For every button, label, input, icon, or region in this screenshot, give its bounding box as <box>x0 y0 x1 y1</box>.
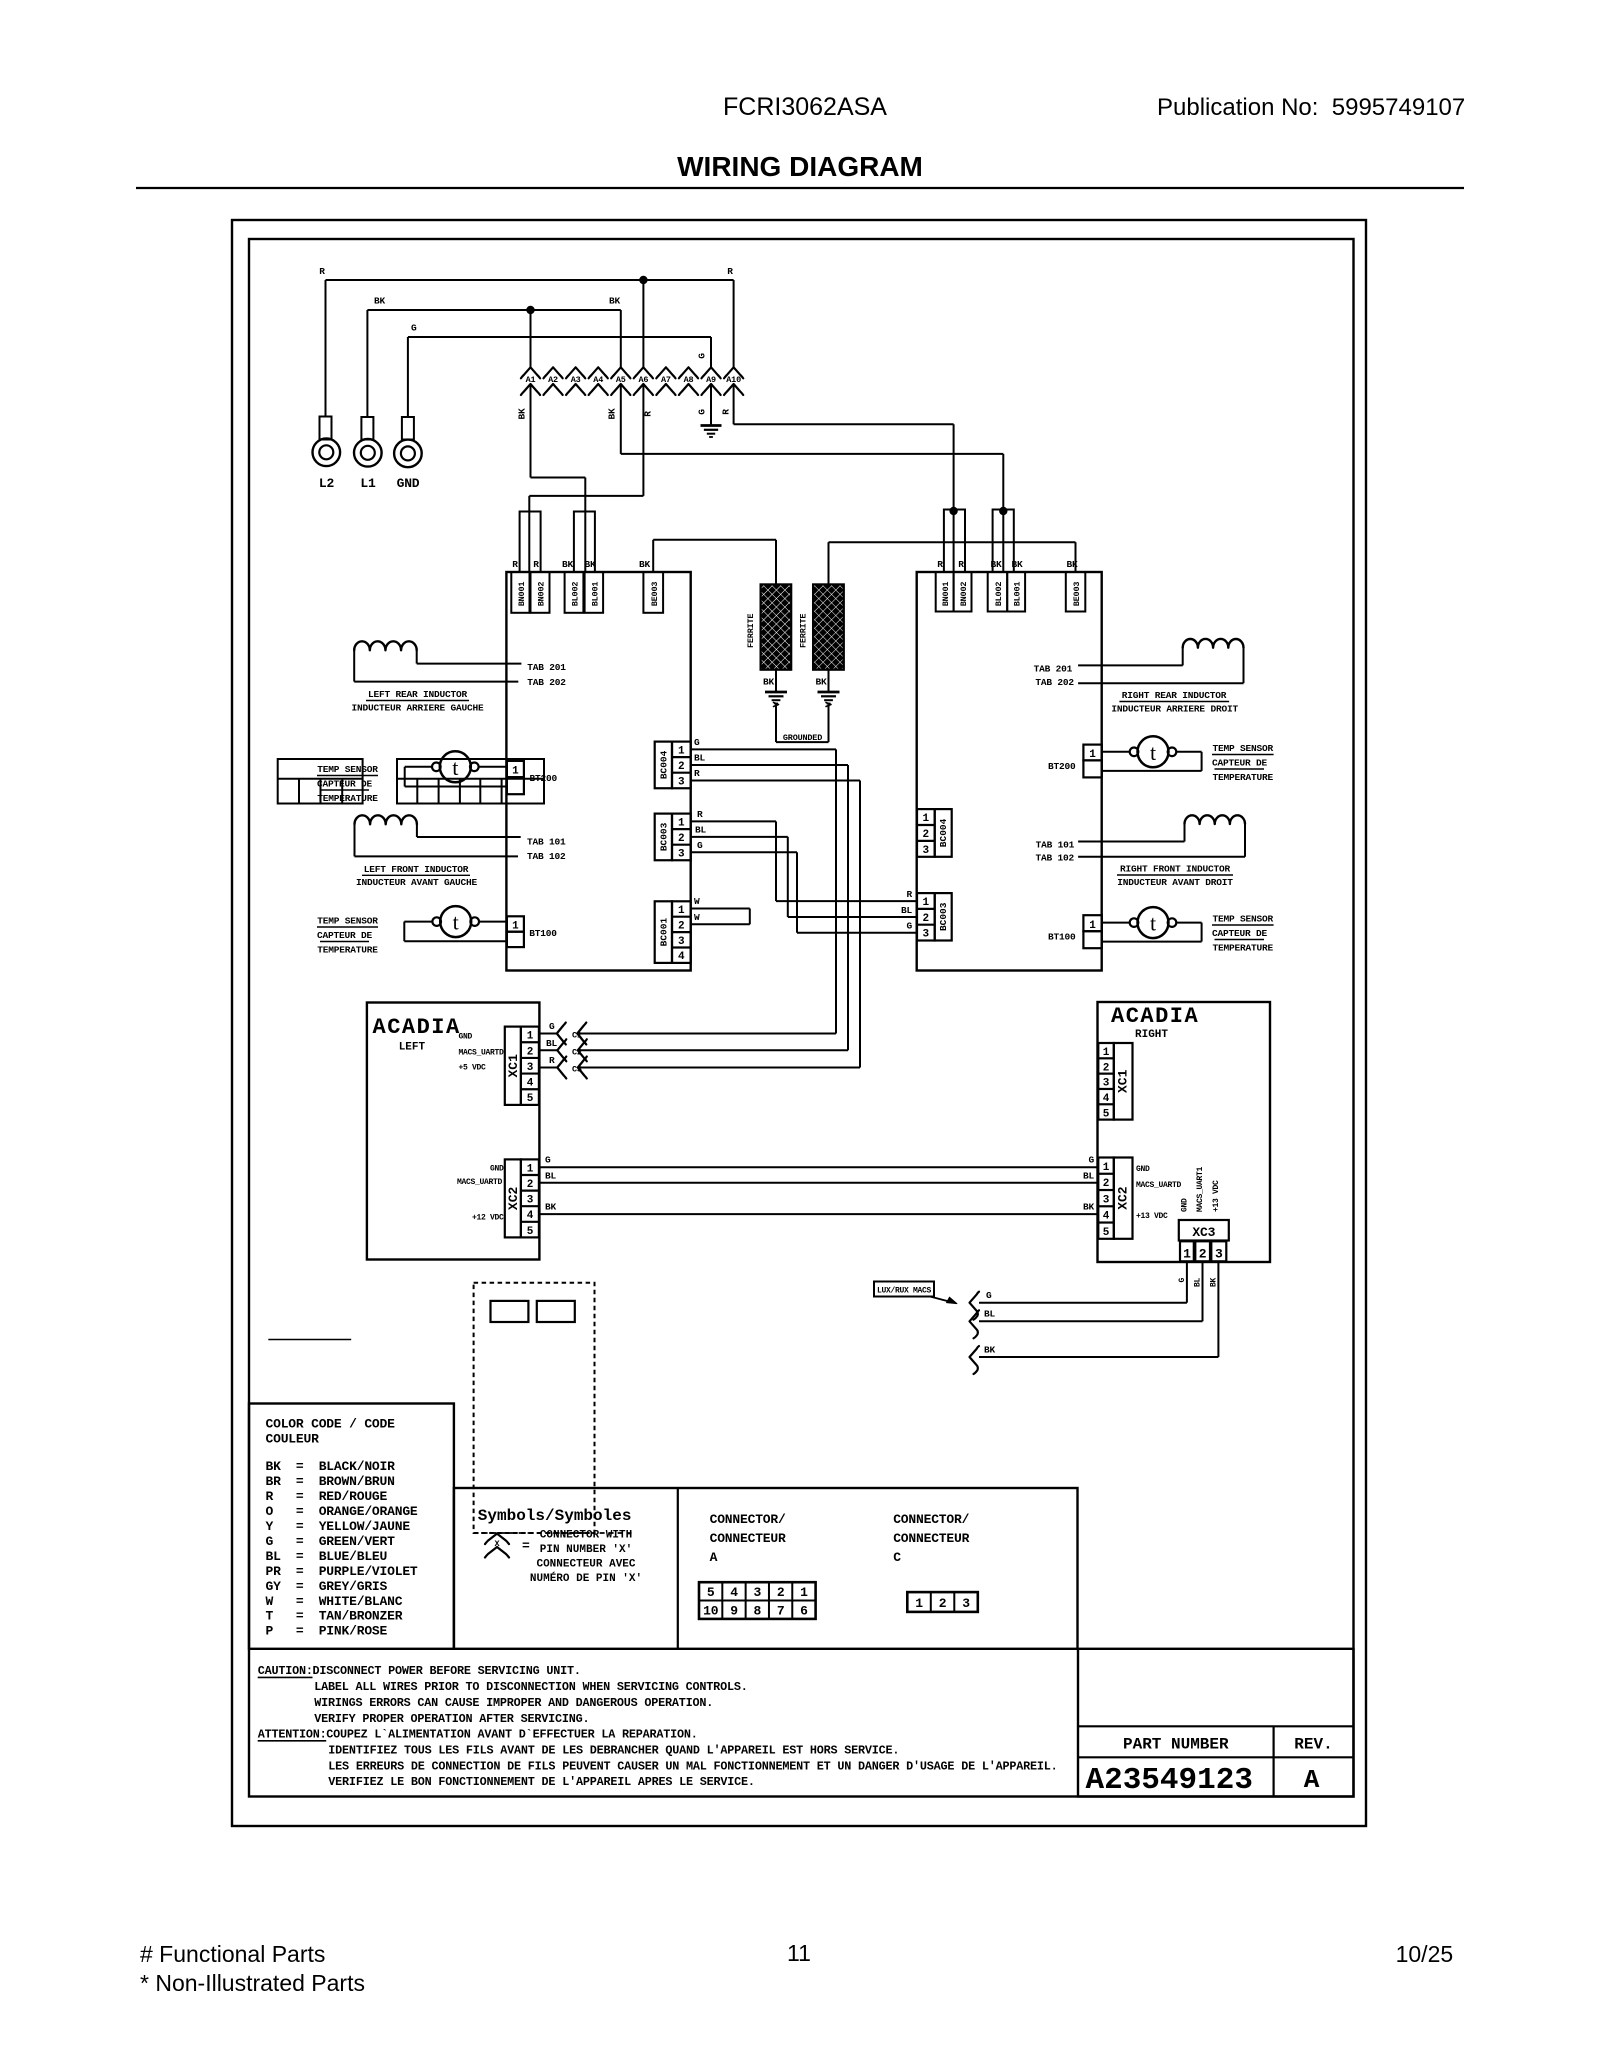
svg-text:11: 11 <box>787 1940 811 1966</box>
svg-text:CAPTEUR DE: CAPTEUR DE <box>317 930 373 941</box>
svg-text:P = PINK/ROSE: P = PINK/ROSE <box>266 1624 388 1639</box>
svg-text:1: 1 <box>1103 1047 1110 1059</box>
wire BK XC3-3 to LUX harness <box>1217 1261 1219 1357</box>
svg-text:BL002: BL002 <box>994 582 1004 607</box>
svg-text:VERIFIEZ LE BON FONCTIONNEMENT: VERIFIEZ LE BON FONCTIONNEMENT DE L'APPA… <box>328 1775 755 1789</box>
wire BK branch down through A1 <box>530 310 532 367</box>
svg-text:* Non-Illustrated Parts: * Non-Illustrated Parts <box>140 1970 365 1996</box>
module ACADIA RIGHT <box>1098 1002 1271 1262</box>
svg-text:BL: BL <box>1083 1170 1095 1181</box>
svg-text:W: W <box>694 912 700 923</box>
svg-text:2: 2 <box>1199 1247 1207 1262</box>
svg-text:LUX/RUX MACS: LUX/RUX MACS <box>877 1287 932 1296</box>
svg-text:CONNECTEUR: CONNECTEUR <box>893 1531 969 1546</box>
svg-text:MACS_UARTD: MACS_UARTD <box>459 1049 505 1058</box>
left board connector housing over BL tabs <box>574 512 595 573</box>
svg-text:C2: C2 <box>572 1048 582 1058</box>
svg-text:CONNECTOR/: CONNECTOR/ <box>710 1512 786 1527</box>
svg-text:TAB 101: TAB 101 <box>527 836 566 847</box>
terminal strip grid A at BT200 <box>278 759 363 804</box>
wire BK from L1 to A5 <box>367 309 620 311</box>
svg-text:R: R <box>643 411 654 417</box>
svg-text:BL: BL <box>901 905 913 916</box>
svg-text:BL001: BL001 <box>590 582 600 607</box>
temp sensor BT100 left <box>440 906 471 937</box>
svg-text:LABEL ALL WIRES PRIOR TO DISCO: LABEL ALL WIRES PRIOR TO DISCONNECTION W… <box>314 1680 747 1694</box>
svg-text:5: 5 <box>527 1093 534 1105</box>
svg-text:TEMP SENSOR: TEMP SENSOR <box>317 764 378 775</box>
svg-text:FERRITE: FERRITE <box>746 614 756 648</box>
svg-text:1: 1 <box>922 897 929 909</box>
svg-text:BL: BL <box>546 1038 558 1049</box>
svg-text:2: 2 <box>678 761 685 773</box>
svg-text:2: 2 <box>922 829 929 841</box>
right board connector housing over BN tabs <box>944 510 965 573</box>
svg-text:2: 2 <box>1103 1178 1110 1190</box>
svg-text:3: 3 <box>922 845 929 857</box>
svg-text:LEFT FRONT INDUCTOR: LEFT FRONT INDUCTOR <box>364 864 469 875</box>
left board tab BL001 <box>585 572 604 613</box>
svg-text:1: 1 <box>1089 920 1096 932</box>
svg-text:4: 4 <box>1103 1211 1110 1223</box>
svg-text:R: R <box>727 266 733 277</box>
svg-text:+13 VDC: +13 VDC <box>1136 1212 1168 1221</box>
svg-text:MACS_UART1: MACS_UART1 <box>1196 1166 1205 1212</box>
connector A7 <box>656 367 675 378</box>
svg-text:TEMPERATURE: TEMPERATURE <box>1213 943 1274 954</box>
svg-text:BK: BK <box>639 559 651 570</box>
connector BC001 left board <box>655 901 672 963</box>
svg-text:ACADIA: ACADIA <box>373 1015 461 1040</box>
wire R branch down through A6 <box>642 280 644 367</box>
svg-text:XC1: XC1 <box>1116 1069 1131 1093</box>
svg-text:A2: A2 <box>548 375 558 385</box>
junction node on right BN housing <box>949 507 957 515</box>
svg-text:INDUCTEUR AVANT DROIT: INDUCTEUR AVANT DROIT <box>1117 877 1233 888</box>
connector BC004 right board <box>935 809 952 857</box>
svg-text:4: 4 <box>527 1210 534 1222</box>
wire R from L2 to A10 <box>326 279 734 281</box>
svg-text:X: X <box>495 1539 501 1549</box>
svg-text:BK: BK <box>1083 1202 1095 1213</box>
svg-text:TEMPERATURE: TEMPERATURE <box>1213 772 1274 783</box>
svg-text:BT200: BT200 <box>1048 761 1076 772</box>
right board tab BE003 <box>1066 572 1086 612</box>
svg-text:BK: BK <box>763 677 775 688</box>
svg-text:COLOR CODE / CODE: COLOR CODE / CODE <box>266 1417 396 1432</box>
svg-text:PIN NUMBER 'X': PIN NUMBER 'X' <box>540 1544 632 1556</box>
svg-text:A6: A6 <box>638 375 648 385</box>
svg-text:G: G <box>1088 1155 1094 1166</box>
svg-text:3: 3 <box>527 1062 534 1074</box>
svg-text:BC001: BC001 <box>659 918 670 947</box>
svg-text:1: 1 <box>678 817 685 829</box>
svg-text:3: 3 <box>678 776 685 788</box>
svg-text:6: 6 <box>800 1604 808 1619</box>
connector A4 <box>589 367 608 378</box>
left board connector housing over BN tabs <box>520 512 541 573</box>
svg-text:NUMÉRO DE PIN 'X': NUMÉRO DE PIN 'X' <box>530 1571 642 1585</box>
svg-text:INDUCTEUR ARRIERE DROIT: INDUCTEUR ARRIERE DROIT <box>1111 704 1238 715</box>
connector XC3 <box>1179 1220 1229 1241</box>
svg-text:R: R <box>721 409 732 415</box>
part number table <box>1078 1649 1354 1797</box>
svg-text:A1: A1 <box>526 375 536 385</box>
terminal L1 ring lug <box>366 310 368 417</box>
svg-text:Publication No: 5995749107: Publication No: 5995749107 <box>1157 94 1465 121</box>
svg-text:R: R <box>533 559 539 570</box>
svg-text:2: 2 <box>678 833 685 845</box>
connector A6 <box>634 367 653 378</box>
svg-text:TAB 102: TAB 102 <box>527 851 566 862</box>
connector C pin grid <box>907 1592 978 1612</box>
svg-text:BK: BK <box>815 677 827 688</box>
svg-text:BL = BLUE/BLEU: BL = BLUE/BLEU <box>266 1549 388 1564</box>
svg-text:Symbols/Symboles: Symbols/Symboles <box>478 1507 632 1525</box>
connector A2 <box>543 367 562 378</box>
terminal L2 ring lug <box>325 280 327 417</box>
svg-text:BK: BK <box>374 296 386 307</box>
svg-text:BE003: BE003 <box>650 582 660 607</box>
svg-text:5: 5 <box>1103 1227 1110 1239</box>
svg-text:CONNECTEUR AVEC: CONNECTEUR AVEC <box>536 1559 635 1571</box>
svg-text:4: 4 <box>527 1078 534 1090</box>
right board tab BN001 <box>936 572 954 612</box>
symbols box <box>454 1488 1078 1649</box>
svg-text:G: G <box>411 323 417 334</box>
svg-text:C3: C3 <box>572 1065 582 1075</box>
connector A9 <box>701 367 720 378</box>
svg-text:1: 1 <box>527 1163 534 1175</box>
svg-text:XC2: XC2 <box>506 1187 521 1211</box>
svg-text:COULEUR: COULEUR <box>266 1432 320 1447</box>
svg-text:A: A <box>1304 1765 1320 1795</box>
terminal GND ring lug <box>407 337 409 417</box>
wire BK down through A5 <box>620 310 622 367</box>
wire G BC004-1 to C1 <box>691 748 836 750</box>
svg-text:G: G <box>697 353 708 359</box>
svg-text:4: 4 <box>730 1585 738 1600</box>
svg-text:BL: BL <box>694 753 706 764</box>
terminal strip grid B at BT200 <box>397 759 544 804</box>
wire BL BC003 pin2 interconnect <box>691 836 788 838</box>
svg-text:BK: BK <box>607 408 618 420</box>
title underline rule <box>136 187 1464 189</box>
svg-text:2: 2 <box>1103 1062 1110 1074</box>
svg-text:BK: BK <box>545 1202 557 1213</box>
wire G XC3-1 to LUX harness <box>1186 1261 1188 1302</box>
left power board <box>506 572 690 971</box>
svg-text:W = WHITE/BLANC: W = WHITE/BLANC <box>266 1594 403 1609</box>
svg-text:MACS_UARTD: MACS_UARTD <box>457 1178 503 1187</box>
svg-text:BL: BL <box>984 1309 996 1320</box>
svg-text:1: 1 <box>800 1585 808 1600</box>
wire R below A10 to right board BN housing <box>733 384 735 424</box>
svg-text:R: R <box>697 809 703 820</box>
svg-text:TAB 101: TAB 101 <box>1036 840 1075 851</box>
svg-text:A4: A4 <box>593 375 603 385</box>
svg-text:BN002: BN002 <box>537 582 547 607</box>
svg-text:BC003: BC003 <box>659 822 670 851</box>
svg-text:R: R <box>958 559 964 570</box>
svg-text:3: 3 <box>1215 1247 1223 1262</box>
wire W jumper BC001 pins 1-2 <box>691 908 750 910</box>
ferrite 2 ground wire <box>828 670 830 691</box>
svg-text:TAB 201: TAB 201 <box>1034 664 1073 675</box>
svg-text:BK = BLACK/NOIR: BK = BLACK/NOIR <box>266 1459 396 1474</box>
svg-text:PR = PURPLE/VIOLET: PR = PURPLE/VIOLET <box>266 1564 418 1579</box>
wire BK from left BE003 to ferrite 1 <box>652 540 654 572</box>
right board tab BL001 <box>1007 572 1025 612</box>
connector block BT200 right <box>1083 745 1101 761</box>
svg-text:WIRING DIAGRAM: WIRING DIAGRAM <box>677 151 923 182</box>
svg-text:G: G <box>545 1155 551 1166</box>
wire BL XC2 bus <box>539 1182 1098 1184</box>
wire R BC004-3 to C3 <box>691 780 860 782</box>
svg-text:+13 VDC: +13 VDC <box>1212 1180 1221 1212</box>
left board tab BL002 <box>565 572 584 613</box>
svg-text:2: 2 <box>939 1596 947 1611</box>
connector BC004 left board <box>655 742 672 789</box>
svg-text:ATTENTION:: ATTENTION: <box>258 1728 327 1742</box>
svg-text:COUPEZ L`ALIMENTATION AVANT D`: COUPEZ L`ALIMENTATION AVANT D`EFFECTUER … <box>326 1728 697 1742</box>
wire R below A6 to left board BN housing <box>642 384 644 496</box>
svg-text:1: 1 <box>915 1596 923 1611</box>
svg-text:A9: A9 <box>706 375 716 385</box>
svg-text:LEFT: LEFT <box>399 1042 426 1054</box>
ferrite bead 2 <box>813 584 844 669</box>
svg-text:C: C <box>893 1550 901 1565</box>
svg-text:BC003: BC003 <box>938 902 949 931</box>
svg-text:2: 2 <box>527 1179 534 1191</box>
svg-text:8: 8 <box>754 1604 762 1619</box>
connector A8 <box>679 367 698 378</box>
ferrite 1 ground wire <box>775 670 777 691</box>
svg-text:FCRI3062ASA: FCRI3062ASA <box>723 93 887 121</box>
junction node BK at A1 <box>526 306 534 314</box>
svg-text:TAB 202: TAB 202 <box>527 677 566 688</box>
connector A5 <box>611 367 630 378</box>
inductor left front coil <box>355 815 417 824</box>
symbols box divider <box>677 1488 679 1649</box>
svg-text:G: G <box>697 409 708 415</box>
svg-text:10/25: 10/25 <box>1396 1941 1454 1967</box>
svg-text:+12 VDC: +12 VDC <box>472 1214 504 1223</box>
svg-text:3: 3 <box>678 848 685 860</box>
svg-text:TEMP SENSOR: TEMP SENSOR <box>1213 743 1274 754</box>
svg-text:A: A <box>710 1550 718 1565</box>
svg-text:# Functional Parts: # Functional Parts <box>140 1941 325 1967</box>
ferrite bead 1 <box>761 584 792 669</box>
right board connector housing over BL tabs <box>993 510 1014 573</box>
svg-text:9: 9 <box>730 1604 738 1619</box>
UI board button 2 <box>537 1301 575 1322</box>
svg-text:2: 2 <box>777 1585 785 1600</box>
svg-text:4: 4 <box>1103 1093 1110 1105</box>
svg-text:WIRINGS ERRORS CAN CAUSE IMPRO: WIRINGS ERRORS CAN CAUSE IMPROPER AND DA… <box>314 1696 713 1710</box>
svg-text:BL: BL <box>545 1170 557 1181</box>
svg-text:MACS_UARTD: MACS_UARTD <box>1136 1181 1182 1190</box>
svg-text:5: 5 <box>707 1585 715 1600</box>
svg-text:TEMP SENSOR: TEMP SENSOR <box>1213 914 1274 925</box>
svg-text:R: R <box>549 1055 555 1066</box>
svg-text:BE003: BE003 <box>1072 582 1082 607</box>
svg-text:3: 3 <box>527 1195 534 1207</box>
svg-text:A3: A3 <box>571 375 581 385</box>
svg-text:3: 3 <box>922 929 929 941</box>
svg-text:A8: A8 <box>684 375 694 385</box>
svg-text:1: 1 <box>922 813 929 825</box>
color code box <box>249 1404 454 1649</box>
svg-text:10: 10 <box>703 1604 719 1619</box>
svg-text:R = RED/ROUGE: R = RED/ROUGE <box>266 1489 388 1504</box>
svg-text:1: 1 <box>678 905 685 917</box>
svg-text:3: 3 <box>754 1585 762 1600</box>
connector block BT100 right <box>1083 915 1101 931</box>
connector XC1 right <box>1114 1043 1133 1120</box>
svg-text:XC1: XC1 <box>506 1054 521 1078</box>
svg-text:BK: BK <box>609 296 621 307</box>
svg-text:GND: GND <box>1181 1198 1190 1212</box>
svg-text:G: G <box>1178 1278 1187 1283</box>
junction node R at A6 <box>639 276 647 284</box>
left board tab BN002 <box>531 572 550 613</box>
svg-text:CONNECTOR/: CONNECTOR/ <box>893 1512 969 1527</box>
svg-text:5: 5 <box>1103 1108 1110 1120</box>
svg-text:O = ORANGE/ORANGE: O = ORANGE/ORANGE <box>266 1504 418 1519</box>
svg-text:BN001: BN001 <box>941 582 951 607</box>
svg-text:REV.: REV. <box>1294 1736 1332 1754</box>
svg-text:3: 3 <box>1103 1078 1110 1090</box>
svg-text:BL001: BL001 <box>1013 582 1023 607</box>
svg-text:TAB 201: TAB 201 <box>527 662 566 673</box>
svg-text:3: 3 <box>678 936 685 948</box>
connector BC003 right board <box>935 893 952 940</box>
connector XC2 left <box>505 1159 521 1237</box>
svg-text:G: G <box>986 1290 992 1301</box>
svg-text:CAPTEUR DE: CAPTEUR DE <box>1212 758 1268 769</box>
svg-text:R: R <box>512 559 518 570</box>
svg-text:L1: L1 <box>360 476 376 491</box>
wire BL BC004-2 to C2 <box>691 764 848 766</box>
svg-text:CAUTION:: CAUTION: <box>258 1664 313 1678</box>
wire G XC1-1 with connector C1 <box>539 1033 557 1035</box>
wire G XC2 bus <box>539 1166 1098 1168</box>
svg-text:Y = YELLOW/JAUNE: Y = YELLOW/JAUNE <box>266 1519 411 1534</box>
svg-text:LES ERREURS DE CONNECTION DE F: LES ERREURS DE CONNECTION DE FILS PEUVEN… <box>328 1759 1057 1773</box>
svg-text:VERIFY PROPER OPERATION AFTER: VERIFY PROPER OPERATION AFTER SERVICING. <box>314 1712 589 1726</box>
svg-text:G: G <box>697 840 703 851</box>
svg-text:CAPTEUR DE: CAPTEUR DE <box>1212 928 1268 939</box>
wire BK below A1 to left board BL housing <box>530 384 532 478</box>
svg-text:BC004: BC004 <box>659 750 670 779</box>
svg-text:1: 1 <box>678 745 685 757</box>
svg-text:5: 5 <box>527 1226 534 1238</box>
user interface board (dashed) <box>474 1283 595 1533</box>
svg-text:INDUCTEUR AVANT GAUCHE: INDUCTEUR AVANT GAUCHE <box>356 877 478 888</box>
UI board button 1 <box>491 1301 529 1322</box>
svg-text:GND: GND <box>1136 1165 1150 1174</box>
wire BL XC3-2 to LUX harness <box>1202 1261 1204 1321</box>
svg-text:BN001: BN001 <box>517 582 527 607</box>
svg-text:T = TAN/BRONZER: T = TAN/BRONZER <box>266 1609 403 1624</box>
svg-text:G: G <box>549 1021 555 1032</box>
svg-text:R: R <box>319 266 325 277</box>
wire BK below A5 to right board BL housing <box>620 384 622 454</box>
svg-text:G: G <box>906 921 912 932</box>
svg-text:BK: BK <box>517 408 528 420</box>
svg-text:1: 1 <box>1089 749 1096 761</box>
svg-text:3: 3 <box>962 1596 970 1611</box>
svg-text:1: 1 <box>512 921 519 933</box>
svg-text:GROUNDED: GROUNDED <box>783 733 822 743</box>
svg-text:1: 1 <box>1183 1247 1191 1262</box>
svg-text:R: R <box>906 889 912 900</box>
ground symbol below A9 <box>701 424 722 427</box>
left board tab BE003 <box>643 572 663 613</box>
connector XC1 left <box>505 1027 521 1105</box>
svg-text:GND: GND <box>490 1165 504 1174</box>
ferrite 1 ground tick <box>774 703 779 707</box>
connector block BT100 left <box>507 916 524 931</box>
connector XC2 right <box>1114 1158 1133 1239</box>
svg-text:CAPTEUR DE: CAPTEUR DE <box>317 779 373 790</box>
symbol connector with pin number <box>485 1534 509 1545</box>
svg-text:7: 7 <box>777 1604 785 1619</box>
stray underline mark <box>268 1339 351 1341</box>
svg-text:GY = GREY/GRIS: GY = GREY/GRIS <box>266 1579 388 1594</box>
svg-text:BN002: BN002 <box>959 582 969 607</box>
connector A pin grid <box>699 1582 816 1619</box>
svg-text:2: 2 <box>922 913 929 925</box>
svg-text:XC3: XC3 <box>1192 1225 1215 1240</box>
svg-text:TAB 102: TAB 102 <box>1035 853 1074 864</box>
svg-text:4: 4 <box>678 951 685 963</box>
svg-text:R: R <box>694 768 700 779</box>
svg-text:LEFT REAR INDUCTOR: LEFT REAR INDUCTOR <box>368 689 468 700</box>
svg-text:XC2: XC2 <box>1116 1186 1131 1210</box>
svg-text:A5: A5 <box>616 375 626 385</box>
inductor right front coil <box>1185 815 1246 824</box>
svg-text:t: t <box>453 910 459 935</box>
inductor right rear coil <box>1183 639 1244 648</box>
right board tab BN002 <box>954 572 972 612</box>
svg-text:DISCONNECT POWER BEFORE SERVIC: DISCONNECT POWER BEFORE SERVICING UNIT. <box>313 1664 581 1678</box>
wire R down through A10 <box>733 280 735 367</box>
inner border frame <box>249 239 1354 1797</box>
svg-text:G: G <box>694 737 700 748</box>
svg-text:FERRITE: FERRITE <box>799 614 809 648</box>
svg-text:+5 VDC: +5 VDC <box>459 1064 487 1073</box>
svg-text:=: = <box>522 1539 530 1554</box>
svg-text:CONNECTEUR: CONNECTEUR <box>710 1531 786 1546</box>
wire G from GND to A9 <box>408 336 711 338</box>
svg-text:RIGHT FRONT INDUCTOR: RIGHT FRONT INDUCTOR <box>1120 864 1231 875</box>
connector block BT200 left <box>507 761 524 777</box>
svg-text:3: 3 <box>1103 1194 1110 1206</box>
svg-text:BK: BK <box>1210 1278 1219 1288</box>
wire BL XC1-2 with connector C2 <box>539 1049 557 1051</box>
outer border frame <box>232 220 1366 1826</box>
callout LUX/RUX MACS <box>874 1282 934 1297</box>
svg-text:CONNECTOR WITH: CONNECTOR WITH <box>540 1530 632 1542</box>
svg-text:L2: L2 <box>319 476 335 491</box>
wire R BC003 pin1 interconnect <box>691 820 776 822</box>
svg-text:BT100: BT100 <box>1048 932 1076 943</box>
svg-text:ACADIA: ACADIA <box>1111 1004 1199 1029</box>
wire G below A9 to ground <box>710 384 712 425</box>
ferrite 2 ground tick <box>826 703 831 707</box>
